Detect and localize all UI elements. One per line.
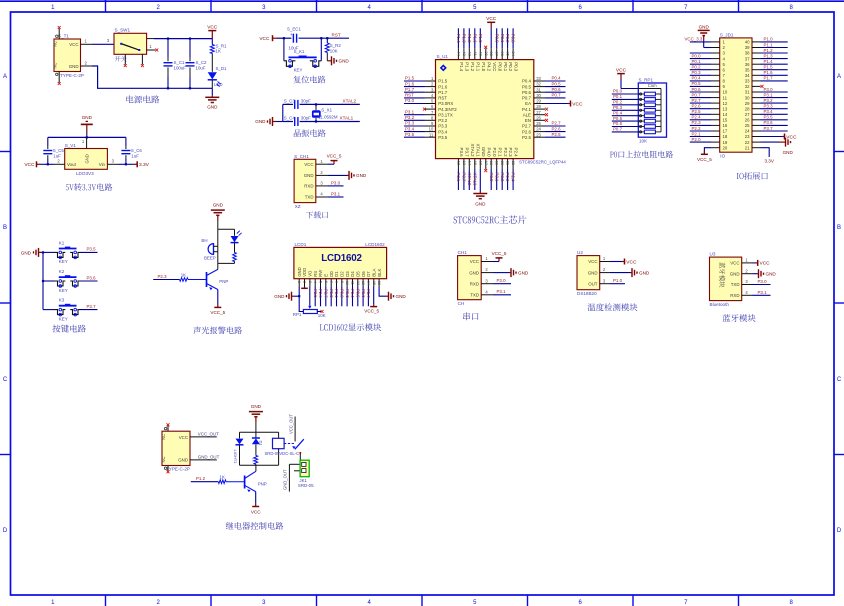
svg-text:2: 2	[57, 159, 60, 164]
svg-text:KEY: KEY	[59, 288, 68, 293]
svg-text:S_V1: S_V1	[65, 143, 77, 148]
MCU right pin 25 P2.7	[522, 121, 566, 129]
svg-text:4: 4	[313, 281, 317, 283]
svg-text:P0.7: P0.7	[552, 93, 562, 98]
svg-text:C: C	[3, 377, 8, 383]
svg-text:P3.3: P3.3	[405, 121, 415, 126]
svg-text:15: 15	[473, 161, 478, 166]
svg-text:33: 33	[745, 79, 750, 84]
JD1 left pin 13	[690, 104, 728, 112]
svg-text:13: 13	[723, 106, 728, 111]
svg-text:44: 44	[456, 51, 461, 56]
svg-text:GND: GND	[304, 173, 314, 178]
bluetooth pin 1 VCC	[730, 258, 752, 266]
svg-text:P0.4: P0.4	[350, 289, 355, 298]
svg-text:P3.1TX: P3.1TX	[438, 112, 453, 117]
JD1 left pin 17	[690, 126, 728, 134]
svg-text:P2.6: P2.6	[522, 129, 532, 134]
svg-text:36: 36	[745, 62, 750, 67]
svg-text:12: 12	[356, 281, 360, 285]
svg-text:P2.2: P2.2	[692, 126, 702, 131]
svg-text:P3.7: P3.7	[462, 172, 467, 182]
svg-text:TYPE-C-2P: TYPE-C-2P	[60, 73, 84, 78]
LCD pin15 BLA to VCC_5	[364, 287, 379, 314]
svg-text:3: 3	[745, 279, 748, 284]
svg-text:P0.2: P0.2	[505, 34, 510, 44]
MCU bottom pin 15 XTAL1	[472, 143, 480, 190]
svg-text:GND: GND	[475, 201, 486, 206]
svg-text:RS: RS	[313, 271, 318, 277]
LCD pin 2 VDD	[302, 268, 307, 287]
svg-text:P3.7: P3.7	[87, 304, 97, 309]
diode D1 flyback	[252, 432, 264, 455]
svg-text:P1.1: P1.1	[472, 34, 477, 44]
svg-text:P0.7: P0.7	[522, 96, 532, 101]
power port VCC_5 download	[327, 154, 342, 165]
MCU right pin 29 EA	[525, 99, 583, 108]
wire top rail of LDO	[48, 136, 126, 138]
MCU bottom pin 20 P2.2	[500, 148, 508, 190]
LCD pin 5 RW	[318, 269, 323, 307]
svg-text:P2.3: P2.3	[692, 120, 702, 125]
JD1 right pin 22	[745, 138, 794, 156]
svg-text:5: 5	[431, 99, 434, 104]
svg-text:XTAL1: XTAL1	[472, 172, 477, 186]
svg-text:K1: K1	[59, 241, 65, 246]
JD1 right pin 33	[745, 76, 788, 84]
resistor pack element P0.1	[612, 94, 661, 101]
svg-text:ALE: ALE	[523, 112, 531, 117]
wire XTAL1 bottom	[283, 121, 360, 123]
JD1 left pin 7	[690, 70, 726, 78]
wire GND_OUT from T2	[190, 454, 220, 460]
JD1 right pin 23	[745, 134, 797, 141]
svg-text:NC: NC	[161, 456, 166, 462]
svg-text:40: 40	[745, 40, 750, 45]
svg-text:S_R2: S_R2	[330, 43, 342, 48]
svg-text:4: 4	[745, 290, 748, 295]
wire relay common to JK1	[289, 453, 300, 471]
caption lanya mokuai	[723, 314, 756, 322]
svg-text:18: 18	[723, 134, 728, 139]
svg-text:P0.0: P0.0	[613, 89, 623, 94]
svg-text:GND: GND	[255, 119, 266, 124]
svg-text:1K: 1K	[220, 475, 225, 480]
push button K1	[43, 241, 98, 265]
svg-text:VCC_5: VCC_5	[364, 308, 379, 313]
svg-text:P0.3: P0.3	[692, 70, 702, 75]
bluetooth pin 2 GND	[730, 268, 753, 276]
svg-text:GND: GND	[518, 270, 529, 275]
MCU left pin 6 P4.3INT2	[423, 104, 457, 112]
JD1 right pin 39	[745, 42, 788, 50]
connector CH1 serial	[458, 250, 493, 306]
svg-text:10uF: 10uF	[196, 65, 206, 70]
svg-text:14: 14	[366, 281, 370, 285]
no-connect X on RP1	[321, 310, 324, 313]
ground relay top	[249, 404, 263, 432]
JD1 left pin 11	[690, 92, 728, 100]
MCU bottom pin 19 P2.1	[494, 148, 502, 190]
svg-text:32: 32	[745, 84, 750, 89]
svg-text:1K: 1K	[181, 272, 186, 277]
connector T2 TYPE-C-2P output	[161, 426, 190, 472]
svg-text:2: 2	[603, 267, 606, 272]
svg-text:GND: GND	[21, 250, 32, 255]
JD1 right pin 21	[745, 145, 775, 163]
svg-text:RXD: RXD	[470, 281, 479, 286]
LCD pin 12 D5	[356, 271, 361, 307]
svg-text:P1.2: P1.2	[196, 476, 206, 481]
svg-text:P3.0: P3.0	[497, 278, 507, 283]
caption IO expansion port	[737, 172, 768, 180]
svg-text:25: 25	[745, 123, 750, 128]
svg-text:XTAL1: XTAL1	[475, 143, 480, 157]
svg-text:P2.4: P2.4	[511, 172, 516, 182]
svg-text:1: 1	[51, 600, 55, 606]
svg-text:SRD-05: SRD-05	[298, 483, 314, 488]
MCU top pin 36 P0.1	[500, 28, 508, 71]
svg-text:14: 14	[723, 112, 728, 117]
svg-text:10: 10	[345, 281, 349, 285]
svg-text:42: 42	[467, 51, 472, 56]
svg-text:XTAL2: XTAL2	[470, 143, 475, 157]
svg-text:D5: D5	[356, 271, 361, 277]
svg-text:VCC: VCC	[486, 16, 497, 22]
svg-text:1: 1	[431, 76, 434, 81]
MCU left pin 8 P3.2	[404, 115, 448, 123]
svg-text:EN: EN	[525, 118, 531, 123]
caption fuwei dianlu	[293, 76, 325, 84]
JD1 right pin 31	[745, 87, 788, 95]
svg-text:VCC_5: VCC_5	[697, 157, 712, 162]
svg-text:RST: RST	[332, 33, 341, 38]
svg-text:KEY: KEY	[294, 68, 303, 73]
LCD pin 1 GND	[297, 267, 302, 286]
JD1 right pin 29	[745, 98, 788, 106]
svg-text:P1.4: P1.4	[764, 59, 774, 64]
svg-text:BLA: BLA	[372, 269, 377, 277]
wire key bus	[42, 252, 44, 309]
svg-text:P3.4: P3.4	[438, 129, 448, 134]
caption jidianqi kongzhi	[226, 522, 284, 530]
svg-text:P2.7: P2.7	[552, 121, 562, 126]
svg-text:GND: GND	[178, 458, 188, 463]
svg-text:17: 17	[484, 161, 489, 166]
switch pin 3 output wire	[147, 38, 213, 40]
svg-text:32: 32	[536, 82, 541, 87]
wire relay top rail	[240, 431, 279, 433]
svg-text:P2.7: P2.7	[692, 98, 702, 103]
caption P0 pull-up resistors	[610, 151, 673, 158]
svg-text:P2.0: P2.0	[489, 172, 494, 182]
svg-text:P0.2: P0.2	[508, 62, 513, 72]
JD1 left pin 1	[685, 37, 726, 45]
svg-text:35: 35	[745, 67, 750, 72]
ground symbol above JD1	[698, 24, 710, 47]
svg-text:P3.7: P3.7	[764, 126, 774, 131]
resistor 1K relay base	[191, 475, 245, 484]
svg-text:P2.2: P2.2	[503, 148, 508, 158]
svg-text:GND: GND	[251, 404, 262, 409]
svg-text:S_R1: S_R1	[216, 43, 228, 48]
svg-text:VCC_5: VCC_5	[210, 310, 225, 315]
wire P3.1 bluetooth	[753, 290, 771, 296]
svg-text:8: 8	[790, 5, 794, 11]
regulator S_V1 LDO3V3	[54, 137, 119, 176]
svg-text:3: 3	[262, 600, 266, 606]
svg-text:P1.4: P1.4	[459, 62, 464, 72]
svg-text:19: 19	[495, 161, 500, 166]
svg-text:P3.1: P3.1	[497, 289, 507, 294]
svg-text:16: 16	[723, 123, 728, 128]
JD1 left pin 6	[690, 65, 726, 73]
svg-text:30pF: 30pF	[301, 116, 311, 121]
LCD pin 10 D3	[345, 271, 350, 307]
svg-text:Vin: Vin	[99, 162, 106, 167]
svg-text:38: 38	[745, 51, 750, 56]
LCD pin16 BLK to ground	[379, 287, 406, 301]
MCU S_U1 STC89C52RC body	[436, 54, 567, 165]
junctions on reset rail	[283, 37, 285, 39]
svg-text:Bluetooth: Bluetooth	[710, 302, 730, 307]
power port VCC bluetooth	[753, 260, 771, 267]
svg-text:RST: RST	[438, 96, 447, 101]
svg-text:3.3V: 3.3V	[764, 159, 774, 164]
caption STC89C52RC main chip	[454, 215, 527, 223]
svg-text:GND: GND	[766, 271, 777, 276]
MCU right pin 28 P4.1	[522, 104, 548, 112]
MCU top pin 40 P1.0	[478, 28, 486, 71]
svg-text:VCC: VCC	[470, 259, 479, 264]
svg-text:P2.6: P2.6	[552, 126, 562, 131]
svg-text:GND: GND	[69, 64, 79, 69]
MCU left pin 4 RST	[404, 93, 447, 101]
svg-text:C: C	[837, 377, 842, 383]
svg-text:GND: GND	[639, 270, 650, 275]
MCU bottom pin 12 P3.6	[456, 148, 464, 190]
svg-text:P0.6: P0.6	[361, 289, 366, 298]
svg-text:VCC: VCC	[179, 435, 188, 440]
svg-text:VCC_3.3: VCC_3.3	[685, 37, 703, 42]
svg-text:28: 28	[536, 104, 541, 109]
svg-text:P2.1: P2.1	[692, 131, 702, 136]
svg-text:18: 18	[489, 161, 494, 166]
caption shengguang baojing	[193, 327, 242, 335]
caption anjian dianlu	[52, 325, 85, 333]
svg-text:1K: 1K	[251, 458, 256, 463]
svg-text:P4.3INT2: P4.3INT2	[438, 107, 457, 112]
capacitor S_C4 30pF	[284, 116, 311, 126]
power port VCC reset	[259, 35, 277, 42]
svg-text:P0.6: P0.6	[613, 121, 623, 126]
power port VCC_5 alarm emitter	[210, 290, 225, 316]
svg-text:P3.6: P3.6	[764, 120, 774, 125]
wire VCC to RST rail	[277, 37, 349, 39]
svg-text:P0.7: P0.7	[613, 127, 623, 132]
svg-text:P2.7: P2.7	[324, 289, 329, 298]
svg-text:XTAL2: XTAL2	[343, 99, 357, 104]
svg-text:P4.2: P4.2	[486, 62, 491, 72]
power port VCC temperature	[610, 259, 637, 266]
svg-text:P3.3: P3.3	[764, 104, 774, 109]
svg-text:P1.2: P1.2	[764, 48, 774, 53]
svg-text:11.0592M: 11.0592M	[318, 114, 338, 119]
svg-text:9: 9	[431, 121, 434, 126]
svg-text:P1.1: P1.1	[764, 42, 774, 47]
svg-text:P3.7: P3.7	[465, 148, 470, 158]
svg-text:9: 9	[340, 281, 344, 283]
ground crystal	[255, 117, 283, 126]
svg-text:TYPE-C-2P: TYPE-C-2P	[166, 467, 190, 472]
svg-text:P3.2: P3.2	[405, 115, 415, 120]
JD1 right pin 40	[745, 37, 788, 45]
LED S_D1	[208, 66, 227, 88]
svg-text:A: A	[837, 74, 841, 80]
svg-text:P1.6: P1.6	[764, 70, 774, 75]
LCD pin 11 D4	[350, 271, 355, 307]
svg-text:P1.3: P1.3	[465, 62, 470, 72]
svg-text:VDD: VDD	[302, 268, 307, 277]
svg-text:1: 1	[51, 5, 55, 11]
svg-text:10K: 10K	[330, 49, 338, 54]
svg-text:S_JD1: S_JD1	[720, 33, 734, 38]
svg-text:P1.0: P1.0	[481, 62, 486, 72]
svg-text:6: 6	[579, 600, 583, 606]
svg-text:GND: GND	[469, 270, 479, 275]
svg-text:P0.6: P0.6	[552, 87, 562, 92]
LCD pin 8 D1	[334, 271, 339, 307]
power port 3.3V at LDO output	[119, 161, 150, 168]
LCD pin 7 D0	[329, 271, 334, 307]
caption xiazaikou	[306, 211, 328, 218]
svg-text:S_U1: S_U1	[437, 54, 449, 59]
svg-text:D6: D6	[361, 271, 366, 277]
bluetooth pin 4 RXD	[730, 290, 752, 298]
svg-text:Vout: Vout	[67, 162, 77, 167]
JD1 left pin 14	[690, 109, 728, 117]
svg-text:RXD: RXD	[730, 293, 739, 298]
MCU top pin 42 P1.2	[467, 28, 475, 71]
svg-text:S_T1: S_T1	[58, 34, 69, 39]
svg-text:GND: GND	[699, 24, 710, 29]
JD1 right pin 26	[745, 115, 788, 123]
wire P3.0 bluetooth	[753, 279, 771, 285]
svg-text:P2.5: P2.5	[692, 109, 702, 114]
svg-text:P2.0: P2.0	[692, 137, 702, 142]
resistor pack element P0.7	[612, 127, 661, 134]
MCU left pin 10 P3.4	[404, 126, 448, 134]
JD1 right pin 38	[745, 48, 788, 56]
svg-text:P0.3: P0.3	[514, 62, 519, 72]
switch S_SW1	[114, 28, 147, 65]
MCU left pin 9 P3.3	[404, 121, 448, 129]
svg-text:D7: D7	[366, 271, 371, 277]
svg-text:37: 37	[495, 51, 500, 56]
resistor alarm LED	[233, 253, 237, 264]
LCD pin 6 E	[324, 274, 329, 307]
svg-text:10: 10	[723, 90, 728, 95]
svg-text:D4: D4	[350, 271, 355, 277]
connector S_T1 (TYPE-C-2P)	[53, 29, 85, 83]
svg-text:P0.1: P0.1	[334, 289, 339, 298]
svg-text:P1.4: P1.4	[456, 34, 461, 44]
MCU left pin 5 P3.0RX	[404, 98, 453, 106]
resistor pack element P0.0	[612, 89, 661, 96]
MCU left pin 2 P1.6	[404, 81, 448, 89]
LCD pin2 VDD power stub	[301, 287, 308, 289]
svg-text:VCC: VCC	[69, 42, 78, 47]
caption 5V to 3.3V	[66, 183, 113, 191]
svg-text:P3.5: P3.5	[87, 247, 97, 252]
svg-text:P1.6: P1.6	[438, 84, 448, 89]
svg-text:VCC: VCC	[572, 101, 583, 107]
no-connect X on switch bottom pins	[124, 64, 127, 67]
svg-text:6: 6	[431, 104, 434, 109]
wire P3.0 serial	[493, 278, 511, 284]
resistor S_R1 1K	[210, 39, 227, 72]
svg-text:VCC: VCC	[492, 62, 497, 71]
svg-text:NC: NC	[53, 41, 58, 47]
svg-text:6: 6	[324, 281, 328, 283]
LCD pin 13 D6	[361, 271, 366, 307]
svg-text:2: 2	[85, 60, 88, 65]
ground symbol above LDO	[81, 115, 93, 137]
svg-text:4: 4	[431, 93, 434, 98]
svg-text:VCC_OUT: VCC_OUT	[198, 431, 219, 436]
svg-text:P2.1: P2.1	[497, 148, 502, 158]
caption wendu jiance	[588, 303, 638, 311]
wire P3.1 serial	[493, 289, 511, 295]
capacitor S_EC1 10uF electrolytic	[287, 27, 301, 51]
resistor 1K alarm base	[153, 272, 188, 281]
svg-text:LCD1602: LCD1602	[365, 242, 385, 247]
svg-text:GND: GND	[207, 105, 218, 110]
connector JK1 SRD-05	[298, 460, 314, 488]
svg-text:P3.2: P3.2	[438, 118, 448, 123]
svg-text:1: 1	[297, 281, 301, 283]
relay switch contact	[284, 439, 304, 454]
svg-text:JK1: JK1	[299, 478, 307, 483]
svg-text:14: 14	[467, 161, 472, 166]
svg-text:RP1: RP1	[293, 312, 302, 317]
svg-text:K3: K3	[59, 298, 65, 303]
svg-text:S_C4: S_C4	[284, 116, 296, 121]
svg-text:27: 27	[536, 110, 541, 115]
svg-text:P0.6: P0.6	[522, 90, 532, 95]
ground download pin2	[328, 171, 367, 180]
svg-text:D3: D3	[345, 271, 350, 277]
JD1 left pin 4	[690, 53, 726, 61]
wire VCC_OUT from T2	[190, 431, 219, 437]
svg-text:P0.7: P0.7	[692, 92, 702, 97]
wire P3.0 download	[328, 180, 344, 186]
svg-text:P3.3: P3.3	[438, 124, 448, 129]
svg-text:35: 35	[506, 51, 511, 56]
svg-text:11: 11	[723, 95, 728, 100]
svg-text:31: 31	[536, 87, 541, 92]
JD1 left pin 20	[697, 145, 728, 162]
svg-text:RXD: RXD	[304, 184, 313, 189]
power port VCC resistor pack	[616, 67, 638, 88]
svg-text:13: 13	[462, 161, 467, 166]
svg-text:1: 1	[149, 44, 152, 49]
svg-text:1: 1	[745, 258, 748, 263]
svg-text:P2.5: P2.5	[552, 132, 562, 137]
caption jingzhen dianlu	[294, 129, 326, 137]
svg-text:P2.0: P2.0	[492, 148, 497, 158]
svg-text:38: 38	[489, 51, 494, 56]
